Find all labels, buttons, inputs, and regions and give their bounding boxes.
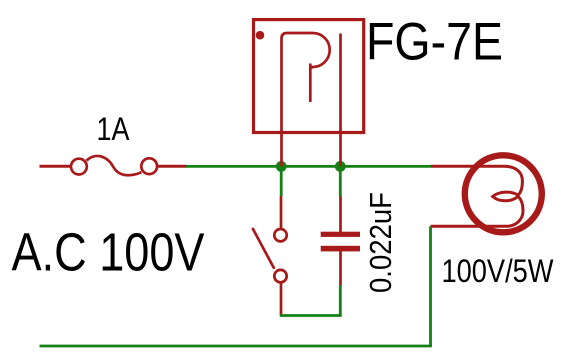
wire: main horizontal green wire xyxy=(186,165,431,168)
wire: junction A to switch (green) xyxy=(280,166,283,196)
switch S1 bottom pin xyxy=(280,284,283,316)
fuse F1 left terminal circle xyxy=(71,159,87,175)
wire: lamp to bottom rail (green vertical) xyxy=(429,226,432,346)
capacitor C1 bottom pin xyxy=(339,251,342,285)
switch S1 top terminal circle xyxy=(274,229,286,241)
svg-text:0.022uF: 0.022uF xyxy=(364,192,398,293)
glow starter U1 fixed electrode xyxy=(339,34,342,167)
wire: bottom connector switch-capacitor (green) xyxy=(280,314,342,317)
junction node B xyxy=(335,161,346,172)
glow starter U1 box outline xyxy=(254,20,364,133)
capacitor C1 top pin xyxy=(339,197,342,233)
wire: fuse right lead (red) xyxy=(157,165,186,168)
switch S1 top pin xyxy=(280,196,283,228)
lamp DS1 filament and leads xyxy=(431,166,524,226)
svg-text:1A: 1A xyxy=(97,111,130,147)
junction node A xyxy=(276,161,287,172)
glow starter U1 pin-1 dot xyxy=(256,31,265,40)
capacitor C1 top plate xyxy=(321,232,360,237)
fuse F1 right terminal circle xyxy=(141,158,157,174)
svg-text:100V/5W: 100V/5W xyxy=(442,253,555,289)
wire: capacitor bottom to connector (green) xyxy=(339,285,342,316)
switch S1 blade xyxy=(253,229,274,268)
wire: AC top lead (red) xyxy=(40,165,71,168)
svg-text:A.C 100V: A.C 100V xyxy=(12,223,205,283)
capacitor C1 bottom plate xyxy=(321,246,360,252)
lamp DS1 bulb ring xyxy=(465,155,542,232)
wire: AC bottom rail (green horizontal) xyxy=(40,345,432,348)
wire: junction B to capacitor (green) xyxy=(339,166,342,196)
switch S1 bottom terminal circle xyxy=(274,270,286,282)
fuse F1 wave element xyxy=(87,156,142,175)
glow starter U1 bimetal electrode (hook) xyxy=(282,33,330,166)
svg-text:FG-7E: FG-7E xyxy=(366,13,503,72)
